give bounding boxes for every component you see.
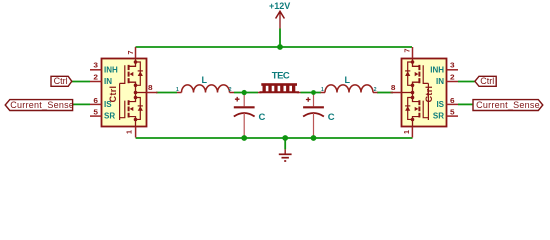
wire U2 pin6 to Current_Sense right bbox=[458, 103, 473, 105]
wire U2 pin2 to Ctrl right bbox=[458, 81, 475, 83]
svg-text:Ctrl: Ctrl bbox=[480, 76, 494, 86]
svg-text:Ctrl: Ctrl bbox=[108, 86, 118, 103]
svg-text:TEC: TEC bbox=[272, 70, 290, 81]
svg-text:Ctrl: Ctrl bbox=[54, 76, 68, 86]
capacitor C1 (polarized) bbox=[234, 93, 266, 139]
svg-text:L: L bbox=[202, 75, 208, 85]
svg-text:6: 6 bbox=[93, 98, 98, 105]
svg-text:7: 7 bbox=[404, 48, 411, 52]
global label Current_Sense (left) bbox=[5, 100, 74, 111]
svg-text:C: C bbox=[259, 112, 266, 123]
inductor L2 bbox=[321, 75, 378, 93]
svg-text:C: C bbox=[328, 112, 335, 123]
wire middle right (L2 to U2 pin8) bbox=[377, 92, 393, 94]
global label Current_Sense (right) bbox=[473, 100, 543, 111]
svg-text:IN: IN bbox=[436, 77, 444, 86]
svg-text:2: 2 bbox=[374, 87, 377, 93]
wire +12V drop bbox=[279, 29, 281, 48]
svg-text:7: 7 bbox=[128, 50, 135, 54]
svg-text:8: 8 bbox=[391, 85, 396, 92]
global label Ctrl (left) bbox=[51, 76, 72, 86]
svg-text:INH: INH bbox=[104, 65, 118, 74]
svg-text:1: 1 bbox=[404, 130, 411, 134]
wire middle left (U1 pin8 to L1) bbox=[156, 92, 177, 94]
power +12V bbox=[269, 1, 290, 29]
svg-text:Current_Sense: Current_Sense bbox=[476, 100, 540, 110]
IC U1 half-bridge driver (left) bbox=[90, 47, 158, 138]
svg-text:6: 6 bbox=[450, 98, 455, 105]
svg-text:+12V: +12V bbox=[269, 1, 290, 11]
wire Current_Sense left to U1 pin6 bbox=[73, 103, 90, 105]
wire bottom rail GND bbox=[136, 137, 413, 139]
svg-text:SR: SR bbox=[433, 112, 444, 121]
svg-text:L: L bbox=[345, 75, 351, 85]
wire Ctrl left to U1 pin2 bbox=[72, 81, 90, 83]
svg-text:2: 2 bbox=[229, 87, 232, 93]
svg-text:Current_Sense: Current_Sense bbox=[10, 100, 74, 110]
junction C2 bottom bbox=[311, 135, 317, 141]
junction C1 bottom bbox=[241, 135, 247, 141]
svg-text:8: 8 bbox=[148, 85, 153, 92]
svg-text:IN: IN bbox=[104, 77, 112, 86]
ground bbox=[279, 149, 292, 161]
junction gnd bbox=[282, 135, 288, 141]
junction C1 top bbox=[242, 90, 247, 95]
svg-text:3: 3 bbox=[93, 63, 98, 70]
IC U2 half-bridge driver (right, mirrored) bbox=[391, 47, 459, 138]
svg-text:SR: SR bbox=[104, 112, 115, 121]
global label Ctrl (right) bbox=[475, 76, 496, 86]
junction C2 top bbox=[311, 90, 316, 95]
svg-text:3: 3 bbox=[450, 63, 455, 70]
wire gnd drop bbox=[284, 138, 286, 149]
svg-text:1: 1 bbox=[176, 87, 179, 93]
svg-text:2: 2 bbox=[93, 74, 98, 81]
junction +12V bbox=[277, 44, 283, 50]
svg-text:5: 5 bbox=[450, 110, 455, 117]
svg-text:1: 1 bbox=[126, 130, 133, 134]
svg-text:INH: INH bbox=[430, 65, 444, 74]
svg-text:1: 1 bbox=[321, 87, 324, 93]
capacitor C2 (polarized) bbox=[303, 93, 335, 139]
svg-text:IS: IS bbox=[436, 100, 444, 109]
wire middle (TEC to L2) bbox=[301, 92, 322, 94]
svg-text:Ctrl: Ctrl bbox=[424, 86, 434, 103]
TEC heating element RT1 bbox=[258, 70, 301, 92]
wire top rail +12V bbox=[136, 46, 413, 48]
svg-text:2: 2 bbox=[450, 74, 455, 81]
svg-text:5: 5 bbox=[93, 110, 98, 117]
wire middle (L1 to TEC) bbox=[234, 92, 258, 94]
inductor L1 bbox=[176, 75, 234, 93]
